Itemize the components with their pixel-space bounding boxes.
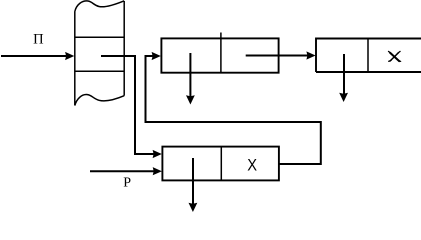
top node 1 divider	[220, 33, 222, 73]
svg-text:X: X	[247, 157, 257, 175]
bottom node divider	[220, 147, 222, 181]
bottom node box	[162, 147, 279, 181]
memory band divider 1	[75, 36, 124, 38]
memory band right edge	[123, 1, 125, 96]
label x (nil mark, top node 2)	[389, 51, 401, 61]
memory band divider 2	[75, 70, 124, 72]
svg-text:П: П	[33, 31, 44, 47]
svg-text:Р: Р	[123, 175, 131, 190]
top node 2 down arrow	[343, 54, 345, 95]
memory band bottom wavy edge	[75, 95, 124, 106]
top node 1 box	[161, 38, 278, 72]
top node 1 down arrow	[189, 53, 191, 98]
arrow into band middle cell	[1, 55, 66, 57]
arrow top node 1 to top node 2	[246, 55, 308, 57]
wire from bottom node right side up and into first top node	[146, 56, 321, 164]
wire from band middle cell down to bottom node	[101, 56, 154, 154]
memory band (tape shape) left edge	[74, 12, 76, 106]
memory band top wavy edge	[75, 1, 124, 12]
arrow P into bottom node	[90, 170, 154, 172]
top node 2 box (clipped at right image edge)	[316, 39, 421, 73]
bottom node down arrow	[192, 158, 194, 205]
top node 2 divider	[367, 39, 369, 73]
